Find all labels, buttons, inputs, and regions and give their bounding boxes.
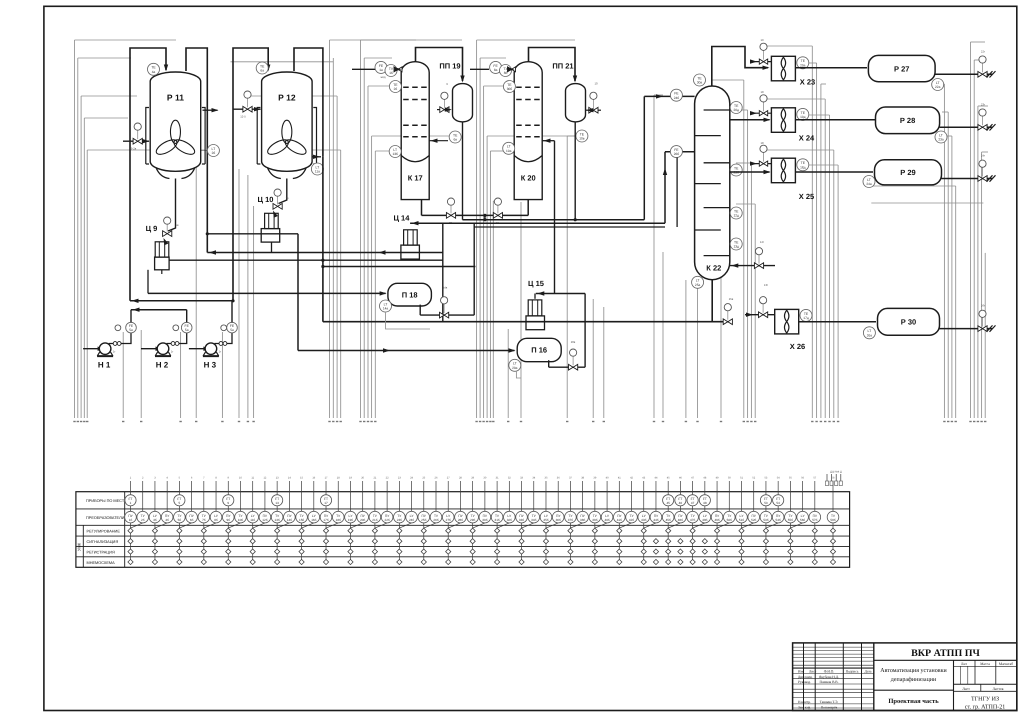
svg-text:жид: жид	[380, 75, 385, 79]
svg-text:Х 23: Х 23	[800, 78, 815, 87]
svg-text:9б: 9б	[227, 518, 231, 522]
svg-text:24б: 24б	[409, 518, 414, 522]
reactor R12 (P 12)	[262, 72, 313, 171]
svg-text:РЕГУЛИРОВАНИЕ: РЕГУЛИРОВАНИЕ	[87, 529, 121, 533]
svg-text:УМК: УМК	[77, 542, 82, 551]
svg-text:Лист: Лист	[962, 687, 970, 691]
overhead vapor line K20 to PP21	[529, 48, 576, 82]
drum P16	[517, 338, 561, 361]
product outlet R28	[940, 126, 993, 128]
recycle header 1 with arrow	[130, 300, 233, 302]
svg-text:23г: 23г	[981, 102, 985, 106]
svg-text:Ц 14: Ц 14	[394, 214, 411, 223]
long header to K22 upper feed	[463, 219, 645, 221]
signal assignment table	[76, 492, 850, 568]
svg-text:14б: 14б	[287, 518, 292, 522]
svg-text:9-2в: 9-2в	[131, 147, 137, 151]
svg-text:20в: 20в	[571, 340, 576, 344]
svg-text:23а: 23а	[938, 138, 944, 142]
transfer line to Ts14	[410, 222, 665, 224]
svg-text:4б: 4б	[165, 518, 169, 522]
product drum R30 (P 30)	[878, 308, 940, 335]
list listov cells	[954, 690, 1017, 692]
svg-text:18: 18	[760, 141, 764, 145]
svg-text:47: 47	[691, 501, 695, 505]
svg-text:29б: 29б	[470, 518, 475, 522]
svg-text:24г: 24г	[981, 154, 985, 158]
svg-text:6а: 6а	[260, 69, 264, 73]
svg-text:Зав. каф.: Зав. каф.	[798, 706, 811, 710]
K22 bottom reflux inlet with valve	[730, 265, 775, 267]
temperature sensor TE right of PP21	[576, 130, 588, 142]
svg-text:45б: 45б	[666, 518, 671, 522]
svg-text:31б: 31б	[494, 518, 499, 522]
P16 vapor riser to Ts15 header	[584, 294, 586, 368]
svg-text:5: 5	[179, 501, 181, 505]
svg-text:8а: 8а	[494, 68, 498, 72]
transfer line arrow	[209, 250, 216, 254]
svg-text:Н 2: Н 2	[156, 360, 169, 369]
valve on C10 inlet	[273, 204, 282, 210]
svg-text:1б: 1б	[129, 518, 133, 522]
riser from P18 valve line	[473, 223, 475, 315]
svg-text:Проектная часть: Проектная часть	[888, 698, 939, 705]
product drum R29 (P 29)	[875, 160, 942, 185]
X26 to R30 pipe	[799, 321, 876, 323]
svg-text:Ф.И.О.: Ф.И.О.	[824, 669, 835, 673]
level transmitter LT K22	[692, 276, 704, 288]
svg-text:Листов: Листов	[993, 687, 1004, 691]
svg-text:Р 30: Р 30	[901, 318, 916, 327]
svg-text:7б: 7б	[202, 518, 206, 522]
Ts15 feed header	[536, 293, 585, 295]
pump H1 discharge riser	[130, 310, 132, 323]
svg-text:30б: 30б	[482, 518, 487, 522]
valve on K17 bottoms	[446, 213, 455, 219]
svg-text:14а: 14а	[383, 307, 389, 311]
svg-text:Дипломн.: Дипломн.	[798, 675, 813, 679]
pump Н 3	[189, 348, 206, 350]
column K22	[695, 86, 730, 280]
X23 to R27 pipe	[795, 67, 867, 69]
title block frame	[793, 643, 1017, 711]
svg-text:55б: 55б	[788, 518, 793, 522]
temperature sensor TE X26	[800, 309, 812, 321]
svg-text:20а: 20а	[800, 63, 806, 67]
PP21 bottoms line	[574, 122, 576, 220]
svg-text:20б: 20б	[360, 518, 365, 522]
title text VKR ATPP PCh	[874, 659, 1017, 661]
svg-text:1а: 1а	[379, 68, 383, 72]
svg-text:44б: 44б	[653, 518, 658, 522]
svg-text:19б: 19б	[348, 518, 353, 522]
svg-text:К 22: К 22	[706, 263, 721, 272]
temperature sensor TE R11	[148, 63, 160, 75]
svg-text:Х 24: Х 24	[799, 134, 815, 143]
separator PP19	[453, 84, 473, 122]
svg-text:8б: 8б	[504, 71, 508, 75]
recycle header 2 with arrow	[131, 309, 187, 311]
svg-text:10б: 10б	[238, 518, 243, 522]
X24 to R28 pipe	[795, 119, 875, 121]
svg-text:18д: 18д	[800, 165, 806, 169]
svg-text:43б: 43б	[641, 518, 646, 522]
K22 bottoms outlet	[711, 280, 713, 322]
valve on bottoms header	[723, 319, 732, 325]
K22 side draw to X25	[730, 171, 770, 173]
flow transmitter FE pump Н 1	[115, 325, 121, 331]
pump Н 2	[141, 348, 158, 350]
svg-text:2б: 2б	[212, 151, 216, 155]
svg-text:1г: 1г	[113, 350, 116, 354]
svg-text:12д: 12д	[733, 214, 739, 218]
svg-text:37б: 37б	[568, 518, 573, 522]
svg-text:СИГНАЛИЗАЦИЯ: СИГНАЛИЗАЦИЯ	[87, 540, 119, 544]
svg-text:17б: 17б	[323, 518, 328, 522]
outlet arrow from R11 side	[203, 109, 218, 111]
svg-text:35б: 35б	[543, 518, 548, 522]
svg-text:22г: 22г	[981, 49, 985, 53]
Ts10 bottoms to P16 drop	[297, 234, 299, 351]
product outlet R30	[940, 328, 993, 330]
LT P18 signal drop	[386, 312, 431, 329]
svg-text:11а: 11а	[315, 170, 320, 174]
overhead vapor line K17 to PP19	[416, 48, 463, 82]
level transmitter LT P18	[380, 300, 392, 312]
svg-text:Н.контр.: Н.контр.	[798, 700, 811, 704]
P16 outlet with valve	[548, 360, 550, 367]
svg-text:10: 10	[594, 82, 598, 86]
svg-text:38б: 38б	[580, 518, 585, 522]
svg-text:Р 27: Р 27	[894, 64, 909, 73]
svg-text:54: 54	[776, 501, 780, 505]
svg-text:11б: 11б	[250, 518, 255, 522]
svg-text:26г: 26г	[981, 304, 985, 308]
svg-text:ПРЕОБРАЗОВАТЕЛИ: ПРЕОБРАЗОВАТЕЛИ	[86, 516, 125, 520]
long line y266 to P18 valve riser	[323, 266, 476, 268]
outlet arrow from R12 side	[312, 156, 321, 158]
temperature sensor TE X23	[797, 57, 809, 69]
svg-text:25в: 25в	[729, 297, 734, 301]
svg-text:52б: 52б	[751, 518, 756, 522]
title block left personnel grid	[803, 643, 805, 711]
reactor R11 (P 11)	[150, 72, 201, 171]
upper cross line A	[207, 233, 298, 235]
svg-text:Автоматизация установки: Автоматизация установки	[880, 668, 947, 674]
Ts9 outlet line right	[169, 259, 443, 261]
separator PP21	[566, 84, 586, 122]
second transfer line	[474, 226, 665, 228]
line from Ts14 to Ts10	[207, 252, 442, 254]
Ts9 bottom to P18 feed	[147, 270, 149, 294]
svg-text:Пономарёв: Пономарёв	[821, 706, 838, 710]
drum P18	[388, 283, 432, 306]
svg-text:12г: 12г	[760, 240, 764, 244]
svg-text:ПП 21: ПП 21	[552, 62, 573, 71]
column K20	[514, 62, 542, 200]
svg-text:20а: 20а	[512, 366, 518, 370]
bottom outlet pipe R12 to C10	[279, 179, 287, 204]
temperature sensor TE X24	[797, 108, 809, 120]
svg-text:1г: 1г	[171, 350, 174, 354]
column K17	[401, 62, 429, 200]
svg-text:ТГНГУ ИЗ: ТГНГУ ИЗ	[971, 697, 999, 703]
level transmitter LT R28	[935, 131, 947, 143]
svg-text:5а: 5а	[230, 328, 234, 332]
svg-text:12б: 12б	[262, 518, 267, 522]
svg-text:2б: 2б	[394, 87, 398, 91]
svg-text:19а: 19а	[506, 149, 512, 153]
svg-text:5б: 5б	[178, 518, 182, 522]
svg-text:7в: 7в	[285, 196, 289, 200]
svg-text:ПРИБОРЫ ПО МЕСТУ: ПРИБОРЫ ПО МЕСТУ	[86, 499, 127, 503]
svg-text:1г: 1г	[219, 350, 222, 354]
LT P16 signal jog	[516, 371, 521, 378]
pipe drop from R11 hairpin	[206, 251, 208, 253]
svg-text:53б: 53б	[763, 518, 768, 522]
svg-text:34б: 34б	[531, 518, 536, 522]
coolant valve X23	[752, 61, 771, 63]
pipe hairpin feeds reactor R11	[130, 48, 166, 301]
svg-text:46: 46	[679, 501, 683, 505]
temperature sensor TE K17 lower right	[449, 131, 461, 143]
temperature sensor TE X25	[797, 159, 809, 171]
second line into X26 with valve	[745, 314, 775, 316]
svg-text:53: 53	[764, 501, 768, 505]
svg-text:51б: 51б	[739, 518, 744, 522]
svg-text:48: 48	[703, 501, 707, 505]
R12 jacket drop to X26 header	[322, 157, 324, 322]
X25 to R29 pipe	[795, 171, 873, 173]
svg-text:Изм: Изм	[798, 669, 805, 673]
K20 side line down to Ts15 header	[554, 141, 556, 294]
level transmitter LT R29	[863, 176, 875, 188]
P18 outlet with valve	[419, 305, 421, 316]
bottom product header to X26	[323, 321, 728, 323]
svg-text:К 20: К 20	[521, 174, 536, 183]
svg-text:42б: 42б	[629, 518, 634, 522]
svg-text:депарафинизации: депарафинизации	[891, 676, 937, 683]
svg-text:27б: 27б	[446, 518, 451, 522]
K22 overhead line to X23	[712, 47, 768, 87]
level transmitter LT R12	[311, 163, 323, 175]
svg-text:13б: 13б	[393, 152, 399, 156]
product drum R27 (P 27)	[868, 55, 935, 81]
svg-text:26б: 26б	[433, 518, 438, 522]
svg-text:Ц 9: Ц 9	[146, 224, 158, 233]
svg-text:РЕГИСТРАЦИЯ: РЕГИСТРАЦИЯ	[87, 550, 115, 554]
svg-text:25б: 25б	[421, 518, 426, 522]
svg-text:40б: 40б	[604, 518, 609, 522]
signal line bundles	[74, 40, 76, 418]
feed line with FE and valve into K20	[470, 68, 489, 70]
product drum R28 (P 28)	[876, 107, 940, 134]
svg-text:ПП 19: ПП 19	[439, 62, 460, 71]
level transmitter LT P16	[509, 359, 521, 371]
svg-text:1б: 1б	[389, 71, 393, 75]
K22 upper feed with FE	[644, 95, 694, 97]
bottom outlet pipe R11 to C9	[168, 179, 176, 232]
svg-text:17д: 17д	[803, 316, 809, 320]
heat exchanger X25	[771, 158, 795, 183]
svg-text:13г: 13г	[764, 283, 768, 287]
svg-text:33б: 33б	[519, 518, 524, 522]
svg-text:1: 1	[130, 501, 132, 505]
svg-text:8б: 8б	[214, 518, 218, 522]
svg-text:Дата: Дата	[865, 669, 872, 673]
svg-text:13б: 13б	[275, 518, 280, 522]
svg-text:2б: 2б	[141, 518, 145, 522]
K22 lower feed with FE	[665, 151, 695, 153]
svg-text:П 16: П 16	[531, 346, 547, 355]
svg-text:30б: 30б	[507, 87, 513, 91]
K17 bottoms pipe	[421, 200, 423, 216]
svg-text:17: 17	[324, 501, 328, 505]
svg-text:Р 28: Р 28	[900, 116, 915, 125]
valve on feed to R11	[123, 140, 149, 142]
svg-text:К 17: К 17	[408, 174, 423, 183]
svg-text:Р 29: Р 29	[900, 168, 915, 177]
level transmitter LT K20	[503, 142, 515, 154]
svg-text:П 18: П 18	[402, 290, 418, 299]
svg-text:10в: 10в	[579, 137, 585, 141]
svg-text:1в: 1в	[175, 223, 179, 227]
valve on K20 bottoms	[493, 213, 502, 219]
svg-text:Подпись: Подпись	[846, 669, 859, 673]
svg-text:54б: 54б	[776, 518, 781, 522]
svg-text:25а: 25а	[695, 283, 701, 287]
signal loop connectors	[75, 39, 177, 41]
svg-text:16б: 16б	[311, 518, 316, 522]
svg-text:14в: 14в	[443, 286, 448, 290]
svg-text:Ц 10: Ц 10	[258, 195, 274, 204]
coolant valve X25	[752, 163, 771, 165]
header down to P16 feed	[484, 215, 486, 219]
coolant valve X24	[752, 112, 771, 114]
svg-text:20д: 20д	[733, 108, 739, 112]
svg-text:9: 9	[227, 501, 229, 505]
svg-text:23б: 23б	[397, 518, 402, 522]
temperature sensor TE R12	[256, 62, 268, 74]
svg-text:45: 45	[666, 501, 670, 505]
svg-text:22б: 22б	[385, 518, 390, 522]
svg-text:46б: 46б	[678, 518, 683, 522]
heat exchanger X23	[771, 56, 795, 81]
svg-text:41б: 41б	[617, 518, 622, 522]
flow transmitter FE pump Н 3	[221, 325, 227, 331]
svg-text:49б: 49б	[714, 518, 719, 522]
temperature sensor TE K17 upper	[389, 81, 401, 93]
svg-text:26а: 26а	[867, 333, 873, 337]
svg-text:Н 1: Н 1	[98, 360, 111, 369]
svg-text:18: 18	[760, 90, 764, 94]
svg-text:Х 26: Х 26	[790, 342, 805, 351]
svg-text:57б: 57б	[812, 518, 817, 522]
Ts14 outlet down	[442, 223, 444, 322]
svg-text:12-5: 12-5	[240, 115, 246, 119]
svg-text:48б: 48б	[702, 518, 707, 522]
temperature sensors on K22	[694, 74, 706, 86]
level transmitter LT R30	[863, 327, 875, 339]
svg-text:13: 13	[275, 501, 279, 505]
temperature sensor TE K20 upper	[503, 81, 515, 93]
svg-text:26б: 26б	[674, 152, 680, 156]
valve on C9 inlet	[163, 231, 172, 237]
svg-text:3б: 3б	[153, 518, 157, 522]
svg-text:5а: 5а	[185, 328, 189, 332]
valve on feed to R12	[234, 108, 261, 110]
svg-text:50б: 50б	[727, 518, 732, 522]
heat exchanger X24	[771, 108, 795, 133]
svg-text:Лит: Лит	[961, 662, 967, 666]
K20 bottoms pipe	[527, 200, 529, 216]
product outlet R29	[942, 178, 993, 180]
svg-text:36б: 36б	[556, 518, 561, 522]
svg-text:ст. гр. АТПП-21: ст. гр. АТПП-21	[965, 705, 1005, 711]
svg-text:ВКР АТПП ПЧ: ВКР АТПП ПЧ	[911, 648, 980, 659]
svg-text:6в: 6в	[453, 138, 457, 142]
title block project name cell	[874, 689, 954, 691]
level transmitter LT K17	[389, 146, 401, 158]
svg-text:4а: 4а	[152, 70, 156, 74]
svg-text:5а: 5а	[129, 328, 133, 332]
svg-text:Х 25: Х 25	[799, 192, 814, 201]
svg-text:15б: 15б	[299, 518, 304, 522]
svg-text:32б: 32б	[507, 518, 512, 522]
K22 side draw to X24	[730, 119, 770, 121]
svg-text:24б: 24б	[674, 96, 680, 100]
pipe hairpin feeds reactor R12	[233, 48, 268, 301]
svg-text:22а: 22а	[935, 85, 941, 89]
svg-text:Пашков В.В.: Пашков В.В.	[820, 680, 839, 684]
svg-text:Р 11: Р 11	[167, 93, 184, 103]
svg-text:Масштаб: Масштаб	[999, 662, 1013, 666]
svg-text:47б: 47б	[690, 518, 695, 522]
svg-text:МНЕМОСХЕМА: МНЕМОСХЕМА	[87, 561, 116, 565]
feed line with FE and valve into K17	[352, 68, 375, 70]
svg-text:Масса: Масса	[980, 662, 990, 666]
svg-text:Ц 15: Ц 15	[528, 279, 544, 288]
svg-text:Р 12: Р 12	[278, 93, 296, 103]
svg-text:24а: 24а	[866, 182, 872, 186]
svg-text:39б: 39б	[592, 518, 597, 522]
svg-text:ДШ №4 Д: ДШ №4 Д	[830, 471, 842, 474]
P16 feed line	[298, 350, 515, 352]
svg-text:30а: 30а	[697, 81, 703, 85]
level transmitter LT R11	[207, 145, 219, 157]
bottoms header K17-K20	[422, 214, 529, 216]
svg-text:28б: 28б	[458, 518, 463, 522]
table corner marks	[826, 474, 828, 481]
valve into PP21	[586, 109, 601, 111]
svg-text:19: 19	[760, 38, 764, 42]
pump H2 discharge riser	[186, 310, 188, 323]
product outlet R27	[935, 73, 992, 75]
svg-text:Руковод.: Руковод.	[798, 680, 811, 684]
PP19 bottoms line	[462, 122, 464, 220]
lit massa masshtab cells	[954, 665, 1017, 667]
svg-text:Якубова Н.Д.: Якубова Н.Д.	[819, 675, 839, 679]
svg-text:Таняева Т.Э.: Таняева Т.Э.	[820, 700, 839, 704]
svg-text:Н 3: Н 3	[204, 360, 217, 369]
svg-text:58б: 58б	[830, 518, 835, 522]
svg-text:56б: 56б	[800, 518, 805, 522]
svg-text:6б: 6б	[190, 518, 194, 522]
svg-text:21б: 21б	[372, 518, 377, 522]
level transmitter LT R27	[932, 79, 944, 91]
svg-text:13д: 13д	[733, 245, 739, 249]
svg-text:Лист: Лист	[809, 669, 817, 673]
